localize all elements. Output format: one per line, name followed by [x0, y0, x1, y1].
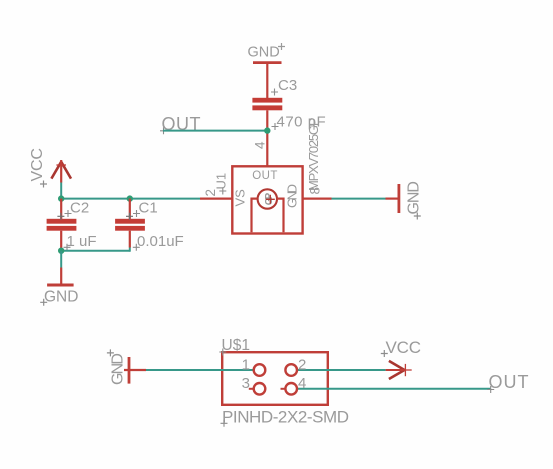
svg-text:PINHD-2X2-SMD: PINHD-2X2-SMD [222, 408, 349, 427]
label OUT (connector output) [487, 372, 528, 393]
U1 pin 2 stub [200, 198, 233, 200]
supply symbol GND (bottom left) [40, 268, 78, 306]
pin 3 stub [249, 388, 254, 390]
wire pin4 to OUT [298, 388, 491, 390]
junction C2 bottom [58, 248, 64, 254]
wire OUT net [163, 130, 267, 132]
U1 inner port outline [252, 199, 284, 233]
wire down to GND [60, 251, 62, 268]
U1 pin 8 stub [302, 198, 332, 200]
supply symbol GND (top, above C3) [248, 43, 286, 63]
svg-text:C2: C2 [70, 199, 89, 216]
svg-text:MPXV7025GP: MPXV7025GP [306, 118, 321, 192]
svg-text:GND: GND [405, 181, 422, 215]
svg-text:OUT: OUT [489, 372, 529, 392]
op-amp / sensor U1 body [232, 166, 302, 233]
wire GND to pin1 [146, 369, 254, 371]
svg-text:GND: GND [44, 289, 78, 306]
wire VCC down [60, 183, 62, 199]
supply symbol VCC (connector right) [381, 338, 421, 379]
wire C1 bottom to C2 bottom [61, 250, 130, 252]
svg-text:U1: U1 [214, 173, 229, 190]
svg-text:2: 2 [203, 189, 218, 197]
wire pin8 to GND [332, 198, 386, 200]
svg-text:0.01uF: 0.01uF [137, 233, 184, 250]
svg-text:GND: GND [248, 45, 280, 61]
capacitor C3 [252, 77, 326, 131]
wire VCC rail to U1 VS [61, 198, 200, 200]
junction C1 top [127, 195, 133, 201]
svg-text:1: 1 [242, 357, 250, 374]
junction VCC/C2 [58, 195, 64, 201]
svg-text:4: 4 [253, 141, 268, 149]
svg-text:1 uF: 1 uF [67, 233, 97, 250]
svg-text:C1: C1 [139, 199, 158, 216]
svg-text:C3: C3 [278, 77, 297, 94]
supply symbol GND (right of U1) [386, 181, 423, 220]
svg-text:2: 2 [298, 357, 306, 374]
capacitor C2 [47, 199, 97, 251]
wire GND to C3 [266, 64, 268, 99]
connector U$1 body [222, 352, 328, 405]
U$1 name label [219, 337, 250, 356]
svg-text:3: 3 [242, 375, 250, 392]
svg-text:OUT: OUT [252, 170, 277, 182]
wire C3 to U1 pin 4 [266, 110, 268, 166]
capacitor C1 [115, 199, 184, 251]
wire pin2 to VCC [298, 369, 386, 371]
svg-text:VCC: VCC [386, 338, 422, 357]
svg-text:VCC: VCC [29, 148, 46, 182]
svg-text:GND: GND [284, 184, 299, 208]
svg-text:VS: VS [233, 189, 248, 207]
svg-text:4: 4 [298, 375, 306, 392]
svg-text:8: 8 [308, 187, 323, 195]
U1 name label [214, 173, 229, 195]
U$1 value PINHD-2X2-SMD [221, 408, 350, 427]
junction (OUT / C3 / pin4) [264, 127, 270, 133]
connector pad 2 [285, 364, 297, 376]
label OUT (net to sensor) [160, 114, 201, 135]
supply symbol VCC (left rail) [29, 148, 71, 188]
connector pad 1 [254, 364, 266, 376]
pin 4 stub [281, 388, 286, 390]
svg-text:GND: GND [109, 353, 126, 385]
connector pad 4 [285, 383, 297, 395]
U1 port circle [258, 189, 277, 208]
connector pad 3 [254, 383, 266, 395]
U1 port origin cross [266, 195, 275, 204]
supply symbol GND (connector left) [107, 349, 146, 385]
wire C1 bottom corner [129, 248, 131, 252]
